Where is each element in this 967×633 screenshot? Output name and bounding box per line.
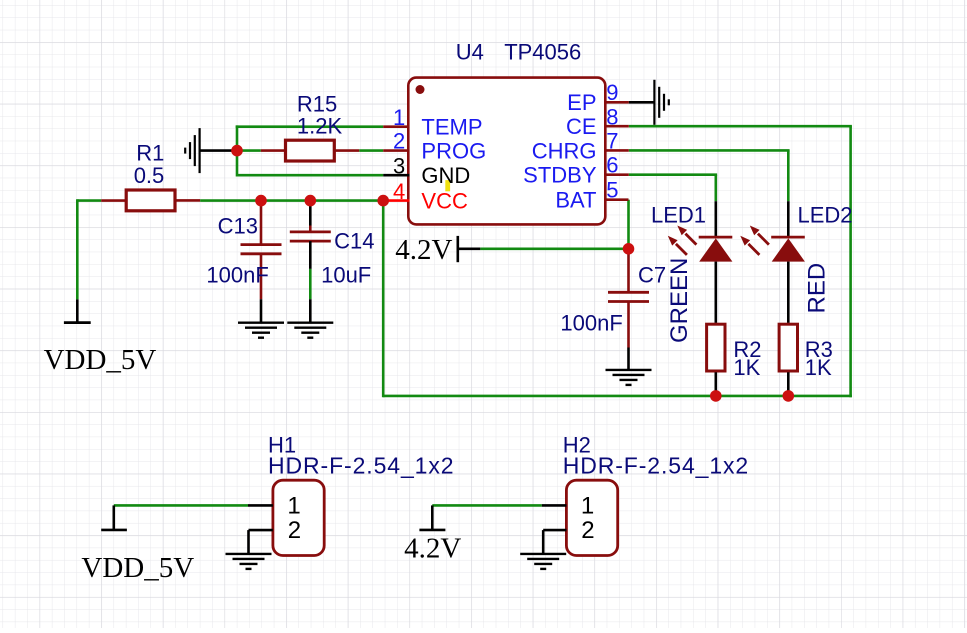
- svg-text:1K: 1K: [805, 355, 832, 380]
- svg-text:9: 9: [606, 80, 618, 105]
- svg-text:C7: C7: [638, 263, 666, 288]
- svg-text:BAT: BAT: [555, 188, 596, 213]
- svg-text:1: 1: [393, 105, 405, 130]
- svg-text:2: 2: [288, 517, 301, 544]
- svg-text:100nF: 100nF: [560, 311, 622, 336]
- svg-text:0.5: 0.5: [134, 163, 165, 188]
- svg-text:GND: GND: [421, 163, 470, 188]
- svg-text:8: 8: [606, 104, 618, 129]
- svg-text:LED1: LED1: [651, 203, 706, 228]
- svg-text:2: 2: [581, 517, 594, 544]
- svg-text:EP: EP: [567, 90, 596, 115]
- svg-text:CE: CE: [566, 114, 597, 139]
- svg-text:U4: U4: [456, 39, 484, 64]
- svg-text:6: 6: [606, 153, 618, 178]
- svg-text:1: 1: [287, 493, 300, 520]
- svg-text:CHRG: CHRG: [532, 138, 597, 163]
- svg-text:GREEN: GREEN: [666, 258, 693, 343]
- svg-text:VDD_5V: VDD_5V: [81, 552, 194, 584]
- svg-text:3: 3: [393, 154, 405, 179]
- svg-text:TP4056: TP4056: [504, 39, 581, 64]
- svg-text:4.2V: 4.2V: [404, 533, 461, 565]
- svg-text:7: 7: [606, 128, 618, 153]
- svg-text:STDBY: STDBY: [523, 163, 597, 188]
- svg-text:C14: C14: [334, 228, 374, 253]
- svg-text:RED: RED: [803, 263, 830, 314]
- svg-text:TEMP: TEMP: [421, 115, 482, 140]
- svg-text:VDD_5V: VDD_5V: [44, 344, 157, 376]
- svg-text:10uF: 10uF: [321, 263, 371, 288]
- svg-text:1K: 1K: [733, 355, 760, 380]
- svg-text:R1: R1: [136, 141, 164, 166]
- svg-text:5: 5: [606, 178, 618, 203]
- svg-text:HDR-F-2.54_1x2: HDR-F-2.54_1x2: [563, 452, 749, 478]
- svg-text:2: 2: [393, 129, 405, 154]
- svg-text:PROG: PROG: [421, 139, 486, 164]
- svg-text:C13: C13: [218, 214, 258, 239]
- svg-text:100nF: 100nF: [206, 263, 268, 288]
- svg-text:4: 4: [393, 179, 405, 204]
- svg-text:VCC: VCC: [421, 189, 468, 214]
- svg-text:4.2V: 4.2V: [395, 234, 452, 266]
- svg-text:1.2K: 1.2K: [297, 114, 343, 139]
- svg-text:1: 1: [581, 493, 594, 520]
- svg-text:HDR-F-2.54_1x2: HDR-F-2.54_1x2: [268, 452, 454, 478]
- svg-text:LED2: LED2: [798, 203, 853, 228]
